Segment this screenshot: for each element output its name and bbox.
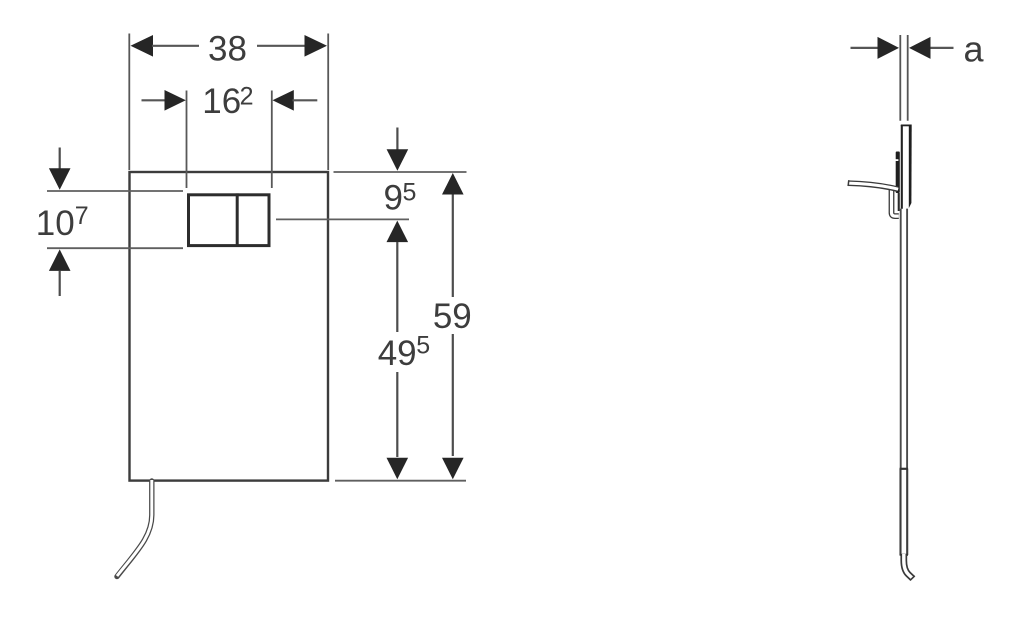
cable side view curve outer	[904, 555, 913, 578]
bracket clip notch	[895, 159, 898, 161]
dim 38 extension line left	[128, 34, 130, 171]
dim 38 line left	[152, 45, 199, 47]
dim 38 arrow right	[305, 35, 328, 57]
dim 59 arrow down	[442, 458, 464, 480]
mounting hook leg outer	[892, 187, 899, 216]
dim 59 shaft lower	[452, 334, 454, 456]
dim 16.2 arrow right	[273, 90, 294, 111]
cable side view end cap	[910, 576, 915, 581]
conduit lower right edge	[906, 469, 908, 556]
svg-text:16: 16	[202, 82, 241, 121]
side plate top edge	[901, 124, 912, 126]
button divider	[236, 193, 239, 247]
dim 49.5 arrow up	[387, 221, 409, 243]
dim 16.2 line left	[142, 99, 167, 101]
button mid reference line	[276, 218, 409, 220]
cable side view curve inner	[904, 554, 912, 578]
bracket clip band	[896, 152, 900, 194]
dim 16.2 arrow left	[165, 90, 186, 111]
dim a arrow left	[878, 37, 900, 59]
dim a arrow right	[909, 37, 931, 59]
dim 49.5 arrow down	[387, 458, 409, 480]
dim 38 arrow left	[131, 35, 154, 57]
dim 16.2 extension line right	[271, 91, 273, 189]
side plate left edge	[901, 125, 903, 209]
dim 16.2 extension line left	[186, 91, 188, 189]
svg-text:5: 5	[403, 178, 417, 206]
dim 38 extension line right	[327, 34, 329, 171]
mounting hook leg inner	[892, 187, 899, 216]
svg-text:38: 38	[208, 30, 247, 69]
svg-text:a: a	[964, 29, 985, 70]
conduit joint tick	[900, 468, 908, 470]
dim a line left	[851, 47, 879, 49]
conduit upper left edge	[900, 209, 902, 469]
bracket lower strip	[898, 193, 900, 211]
mounting hook arm end cap	[847, 180, 850, 186]
dim 10.7 reference line bottom	[47, 247, 183, 249]
dim 16.2 line right	[293, 99, 318, 101]
panel top reference line extended	[334, 171, 467, 173]
dim 49.5 shaft lower	[396, 372, 398, 457]
dim a extension line right	[907, 35, 909, 121]
svg-text:49: 49	[378, 334, 417, 373]
side plate right thick edge	[909, 125, 912, 209]
mounting hook arm outer	[849, 183, 898, 189]
cable front view	[117, 481, 152, 577]
svg-text:9: 9	[384, 178, 403, 217]
dim 9.5 arrow down	[396, 128, 398, 151]
svg-text:2: 2	[240, 82, 254, 110]
side plate white body	[901, 125, 911, 209]
mounting hook arm inner	[848, 183, 898, 189]
dim 10.7 reference line top	[47, 190, 183, 192]
dim a line right	[931, 47, 954, 49]
svg-text:5: 5	[416, 331, 430, 359]
dim 10.7 arrow up	[49, 249, 71, 271]
dim a extension line left	[899, 35, 901, 121]
dim 59 arrow up	[442, 173, 464, 195]
baseline at panel bottom extended	[335, 480, 466, 482]
svg-text:59: 59	[433, 297, 472, 336]
conduit upper right edge	[906, 209, 908, 469]
svg-text:7: 7	[75, 202, 89, 230]
panel front view outline	[130, 172, 329, 481]
dim 38 line right	[257, 45, 306, 47]
dim 10.7 arrow down	[59, 148, 61, 171]
button plate rectangle	[189, 195, 270, 246]
svg-text:10: 10	[36, 204, 75, 243]
conduit lower left edge	[899, 469, 901, 556]
conduit joint tick 2	[900, 554, 908, 556]
